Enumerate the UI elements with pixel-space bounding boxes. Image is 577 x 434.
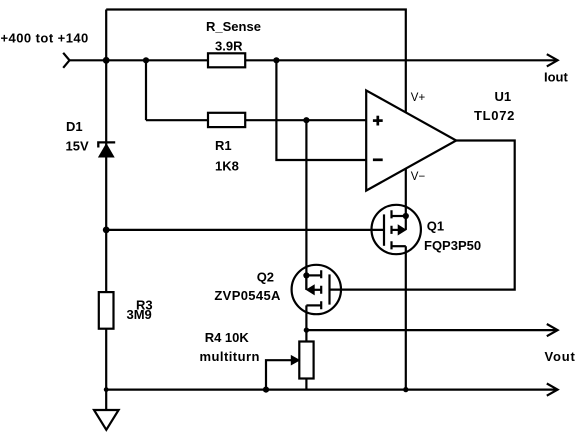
svg-text:TL072: TL072 — [474, 108, 515, 123]
svg-text:D1: D1 — [66, 119, 83, 134]
svg-text:FQP3P50: FQP3P50 — [424, 238, 481, 253]
svg-text:3M9: 3M9 — [127, 307, 152, 322]
svg-text:3.9R: 3.9R — [215, 39, 243, 54]
svg-text:R4 10K: R4 10K — [205, 330, 250, 345]
svg-text:Q2: Q2 — [257, 269, 274, 284]
svg-text:U1: U1 — [495, 89, 512, 104]
svg-text:1K8: 1K8 — [215, 159, 239, 174]
svg-text:R_Sense: R_Sense — [206, 19, 261, 34]
svg-text:+400 tot +140: +400 tot +140 — [1, 30, 89, 45]
svg-text:V−: V− — [411, 171, 426, 183]
svg-text:15V: 15V — [66, 139, 89, 154]
svg-text:Q1: Q1 — [427, 219, 444, 234]
svg-text:ZVP0545A: ZVP0545A — [214, 288, 281, 303]
svg-text:V+: V+ — [411, 92, 426, 104]
svg-text:multiturn: multiturn — [200, 349, 260, 364]
svg-text:Vout: Vout — [545, 349, 576, 364]
svg-text:R1: R1 — [215, 138, 232, 153]
svg-text:Iout: Iout — [544, 69, 568, 84]
